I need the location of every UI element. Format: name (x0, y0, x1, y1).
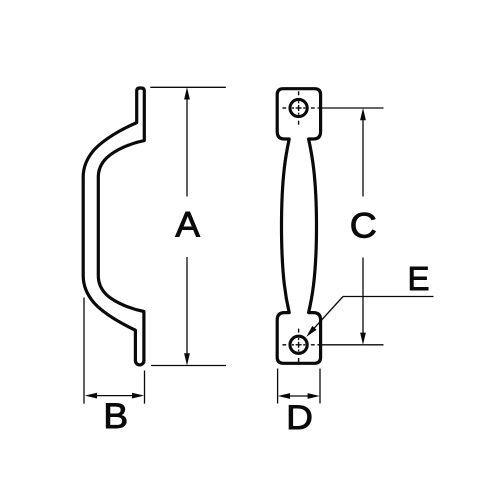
bottom screw hole (290, 336, 307, 353)
top hole centerline horizontal (282, 107, 314, 109)
arrowhead A top (184, 87, 190, 99)
dimension line C lower shaft (362, 258, 364, 338)
arrowhead C top (360, 108, 366, 120)
dimension line A lower shaft (186, 257, 188, 358)
handle front-view outline (right view) (277, 89, 320, 364)
extension line D right (319, 369, 321, 404)
svg-text:E: E (407, 260, 429, 297)
extension line C bottom (317, 344, 383, 346)
extension line bottom (A) (151, 365, 226, 367)
dimension line D (288, 395, 309, 397)
arrowhead A bottom (184, 353, 190, 365)
top hole centerline vertical (298, 91, 300, 124)
svg-text:A: A (175, 206, 200, 245)
bottom hole centerline vertical (298, 329, 300, 362)
handle side-view outline (left view) (83, 88, 144, 365)
svg-text:D: D (286, 399, 313, 437)
dimension line A upper shaft (186, 95, 188, 197)
extension line D left (277, 369, 279, 404)
bottom hole centerline horizontal (282, 344, 314, 346)
svg-text:B: B (103, 397, 128, 436)
leader line E diagonal (309, 297, 343, 334)
arrowhead B left (85, 393, 97, 399)
arrowhead D right (308, 393, 320, 399)
extension line B right (144, 371, 146, 404)
svg-text:C: C (350, 207, 377, 246)
arrowhead D left (278, 393, 290, 399)
extension line top (A) (150, 86, 226, 88)
leader line E horizontal (343, 296, 434, 298)
arrowhead C bottom (360, 333, 366, 345)
top screw hole (290, 99, 307, 116)
arrowhead E (306, 326, 316, 337)
dimension line C upper shaft (362, 116, 364, 197)
extension line C top (317, 107, 383, 109)
arrowhead B right (132, 393, 144, 399)
extension line B left (83, 298, 85, 404)
dimension line B (96, 395, 134, 397)
